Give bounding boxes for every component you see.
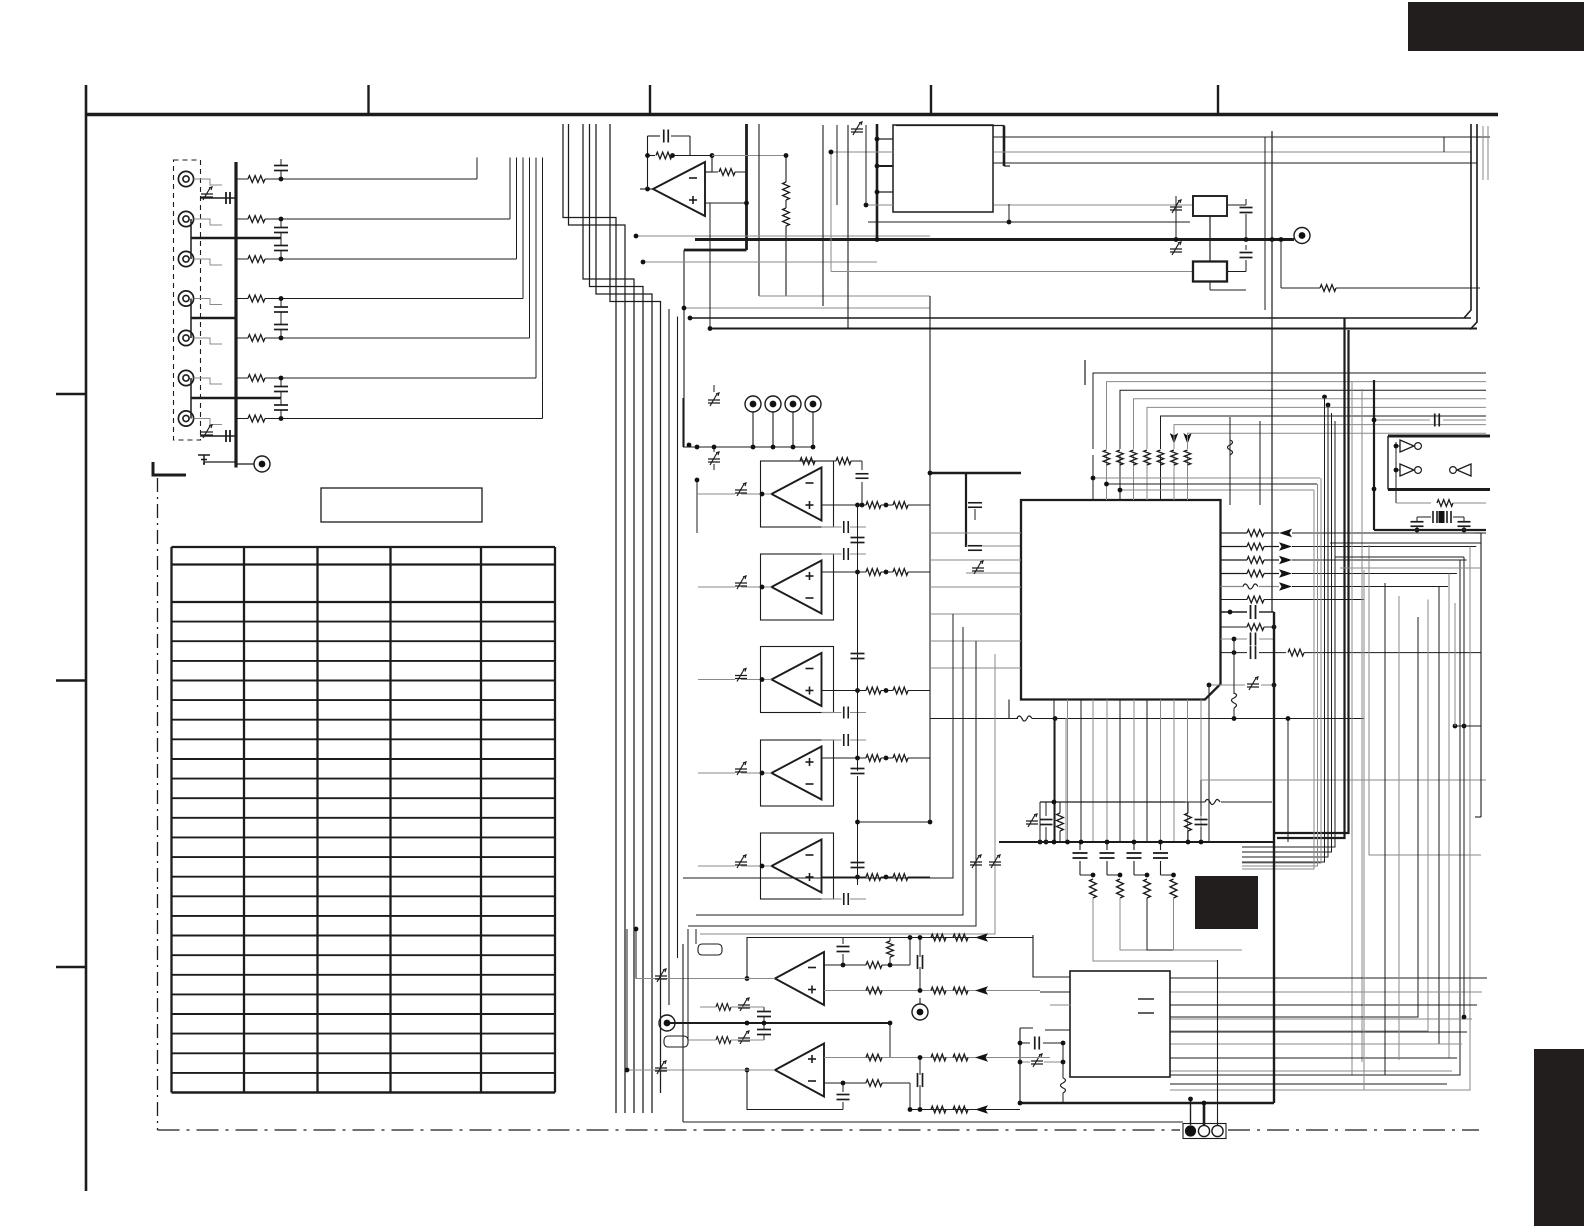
resistor R99 (843, 1082, 866, 1084)
IC U10 DSP (1021, 500, 1221, 700)
resistor R56b (1288, 649, 1304, 656)
wire bus right of U1 (758, 124, 760, 296)
wire right bus verticals (1242, 397, 1325, 862)
label tag 2 (664, 1036, 688, 1047)
wire U5 input (741, 772, 772, 774)
resistor R95 (931, 987, 946, 994)
resistor R50 (1221, 532, 1248, 534)
RCA jack J7 (178, 411, 193, 426)
test point TP6 (805, 396, 821, 412)
resistor R63 (1117, 879, 1124, 898)
wire thick analog (667, 1022, 890, 1024)
ferrite FB18 (989, 862, 1001, 865)
capacitor C26 (1227, 271, 1246, 273)
capacitor C12 (274, 227, 288, 229)
inverter U11c (1457, 464, 1471, 476)
arrow R5 (1279, 582, 1292, 590)
arrow R3 (1279, 569, 1292, 577)
resistor R34a (866, 874, 881, 881)
tick top 1 (367, 85, 369, 114)
op-amp U4 (772, 653, 822, 706)
wire feedback top (712, 155, 786, 157)
wire U1 inverting (705, 171, 712, 173)
ground (198, 455, 210, 464)
resistor R90 (843, 964, 866, 966)
op-amp U3 box (761, 554, 834, 620)
resistor R21 feedback (648, 155, 656, 157)
resistor R96 (953, 987, 968, 994)
wire DSP top staircase (1093, 373, 1486, 449)
resistor R70 (1395, 476, 1397, 503)
wire PS1 bus thick (876, 124, 879, 240)
capacitor C93 (757, 1029, 771, 1031)
wire row 1 (265, 178, 477, 180)
tick top 2 (649, 85, 651, 114)
wire row 6 (265, 377, 536, 379)
wire main bottom bus (999, 841, 1274, 843)
wire thick xtal gnd (1374, 529, 1486, 531)
RCA jack J3 (178, 251, 193, 266)
wire relay join (1209, 216, 1211, 262)
IC U12 marks (1138, 998, 1154, 1000)
resistor R93 (931, 934, 946, 941)
wire U11 supply (1373, 380, 1375, 530)
logo block (1195, 876, 1258, 929)
wire to DSP thick (930, 472, 1021, 474)
op-amp U4 box (761, 647, 834, 713)
op-amp U5 (772, 747, 822, 800)
wire PS1 top (896, 125, 1004, 127)
ferrite FB4 (1170, 249, 1182, 252)
wire dsp top join (1093, 477, 1320, 479)
capacitor C71 (1411, 521, 1424, 523)
capacitor C90 (837, 946, 850, 948)
wire CN1 pin3 (1217, 960, 1219, 1125)
arrow D1 (1170, 433, 1178, 444)
inductor L6 (1061, 1078, 1066, 1093)
resistor R100 (866, 1054, 882, 1061)
wire gray 1066 (1065, 718, 1067, 842)
capacitor C33 (843, 734, 845, 746)
wire U14 nin (824, 1057, 930, 1059)
wire opamp collect verticals (683, 614, 953, 878)
resistor R55 (1221, 599, 1248, 601)
ferrite FB16 (738, 1038, 750, 1041)
wire tp feed (682, 398, 684, 447)
resistor R12 (236, 218, 248, 220)
arrow L6 (975, 1053, 988, 1061)
resistor R26 (1281, 287, 1320, 289)
tick top 4 (1217, 85, 1219, 114)
wire thick main supply (695, 238, 1294, 241)
wire misc mid (965, 473, 967, 547)
wire U13 nin (824, 990, 930, 992)
IC U12 box (1070, 971, 1170, 1077)
wire right gray long pair (1351, 381, 1353, 1075)
capacitor C72 (1458, 521, 1471, 523)
connector shield dashed box (174, 160, 201, 440)
wire tp7 (919, 998, 921, 1004)
ferrite FB15 (738, 1005, 750, 1008)
wire pair tie 1 (191, 237, 281, 239)
wire row 2 (265, 218, 510, 220)
resistor R34b (893, 874, 908, 881)
wire inductor stub (1062, 1043, 1064, 1078)
arrow L7 (975, 1105, 988, 1113)
test point TP5 (785, 396, 801, 412)
wire U4 input (741, 679, 772, 681)
wire chassis corner (153, 462, 186, 475)
resistor R30a (866, 502, 881, 509)
capacitor C61 (1195, 819, 1208, 821)
capacitor C31 (843, 548, 845, 560)
wire op-amp out bus (929, 296, 931, 822)
wire bus from inputs (563, 124, 616, 1113)
wire 1209 down (1208, 685, 1210, 842)
resistor R65 (1170, 879, 1177, 898)
wire PS1 pins (877, 138, 893, 140)
resistor R31b (893, 569, 908, 576)
capacitor C11 (274, 165, 288, 167)
wire right bundle mid gray (1242, 490, 1314, 869)
arrow L5 (975, 986, 988, 994)
inductor L1 (1229, 417, 1231, 505)
wire 1260 (1259, 421, 1261, 505)
wire jack J4 stub (194, 299, 222, 305)
ferrite FB6 (708, 459, 720, 462)
op-amp U1 (653, 162, 705, 216)
RCA jack J1 (178, 171, 193, 186)
wire jack J3 stub (194, 259, 222, 265)
op-amp U6 box (761, 833, 834, 899)
wire DSP top pins (1092, 455, 1094, 500)
wire bus bottom (235, 464, 237, 468)
test point TP4 (765, 396, 781, 412)
resistor R14 (236, 298, 248, 300)
wire bottom net upper (1040, 801, 1185, 803)
wire row1057 (930, 1057, 1050, 1059)
capacitor C94 (837, 1094, 850, 1096)
wire net 152 (828, 151, 893, 153)
wire right vertical 1369 (1369, 545, 1481, 855)
resistor R104 (953, 1106, 968, 1113)
resistor R102 (953, 1054, 968, 1061)
title block top-right (1408, 2, 1584, 51)
wire row 4 (265, 298, 523, 300)
op-amp U2 box (761, 461, 834, 527)
resistor R33a (866, 755, 881, 762)
label tag 1 (698, 944, 722, 955)
arrow R1 (1279, 542, 1292, 550)
resistor R56 (1221, 626, 1248, 628)
wire U1 out thick (745, 124, 748, 250)
wire right verticals (1280, 240, 1282, 289)
wire DSP left pins (1002, 532, 1021, 534)
note box (321, 488, 482, 522)
wire verticals left of PS1 (822, 125, 824, 306)
resistor R51 (1221, 546, 1248, 548)
resistor R30b (893, 502, 908, 509)
ferrite FB21 (851, 129, 863, 132)
resistor R11 (236, 178, 248, 180)
resistor R22 (712, 171, 718, 173)
resistor R92 (866, 987, 882, 994)
wire net 205 (866, 204, 893, 206)
ferrite FB9 (735, 676, 747, 679)
capacitor C30 (843, 521, 845, 533)
inverter U11b (1400, 464, 1414, 476)
resistor R62 (1090, 879, 1097, 898)
wire row 543 (1330, 542, 1481, 544)
wire gray right edge (1482, 126, 1484, 180)
arrow L3 (1279, 529, 1292, 537)
capacitor C95 (917, 1073, 919, 1087)
wire net box (1039, 802, 1041, 842)
resistor R17 (236, 418, 248, 420)
tick left 3 (56, 966, 86, 968)
resistor R52 (1221, 559, 1248, 561)
RCA jack J4 (178, 291, 193, 306)
wire gray joins (636, 235, 930, 237)
capacitor C15 (274, 324, 288, 326)
wire CN1 pin1 (1190, 1099, 1192, 1125)
op-amp U2 (772, 468, 822, 521)
wire jack J6 stub (194, 378, 222, 384)
ferrite FB17 (970, 862, 982, 865)
resistor R94 (953, 934, 968, 941)
inverter U11a (1400, 440, 1414, 452)
bus vertical audio ground (234, 162, 237, 468)
wire fb net (909, 938, 911, 966)
resistor R91 (887, 941, 894, 957)
ferrite FB3 (1170, 207, 1182, 210)
wire row 1464 (1463, 557, 1465, 1017)
ferrite FB11 (735, 862, 747, 865)
test point TP7 (912, 1004, 928, 1020)
parts table (170, 547, 172, 1093)
capacitor C25 (1227, 204, 1246, 206)
ferrite FB10 (735, 769, 747, 772)
wire 890 down (889, 1023, 891, 1058)
wire 1288 down (1287, 719, 1289, 843)
RCA jack J6 (178, 370, 193, 385)
wire U1 tip (640, 188, 653, 190)
tick left 2 (56, 679, 86, 681)
capacitor C32 (843, 707, 845, 719)
ferrite FB14 (1031, 1061, 1043, 1064)
ferrite FB5 (708, 400, 720, 403)
wire thick right vertical pair (1277, 319, 1345, 839)
resistor R64 (1144, 879, 1151, 898)
wire jack J7 stub (194, 419, 222, 425)
test point TP1 (254, 456, 270, 472)
RCA jack J2 (178, 211, 193, 226)
wire jack J1 stub (194, 179, 222, 185)
resistor R32b (893, 687, 908, 694)
capacitor C52 (1250, 646, 1252, 659)
border top (86, 113, 1498, 117)
capacitor C16 (274, 386, 288, 388)
wire row 726 (1455, 725, 1481, 727)
wire U1 noninverting (705, 202, 747, 204)
regulator module PS1 (893, 125, 993, 212)
arrow D2 (1183, 433, 1191, 444)
resistor R29b (836, 458, 851, 465)
side block bottom-right (1534, 1049, 1584, 1226)
wire jack J2 stub (194, 219, 222, 225)
ferrite FB8 (735, 583, 747, 586)
wire bottom row bundle (1170, 977, 1487, 979)
op-amp U14 (775, 1044, 824, 1097)
wire trailing stubs (683, 445, 685, 447)
capacitor C50 (1221, 611, 1248, 613)
capacitor C60 (1040, 819, 1053, 821)
wire CN1 pin2 (1203, 1103, 1206, 1125)
capacitor C65 (1153, 852, 1168, 854)
resistor R101 (931, 1054, 946, 1061)
wire U12 left net (1033, 935, 1071, 977)
resistor R16 (236, 377, 248, 379)
resistor R15 (236, 337, 248, 339)
capacitor C21 feedback (647, 136, 649, 189)
wire DSP bottom pins (1053, 700, 1055, 843)
ferrite bead FB1 (201, 194, 213, 197)
test point TP8 (659, 1015, 675, 1031)
wire stub (1084, 360, 1086, 385)
relay RY1 (1193, 196, 1227, 216)
wire row 5 (265, 337, 530, 339)
op-amp U6 (772, 840, 822, 893)
capacitor C91 (917, 955, 919, 969)
op-amp U5 box (761, 740, 834, 806)
wire U13 loop (747, 938, 843, 979)
wire tp row feed2 (696, 480, 698, 533)
inductor L5 (1205, 800, 1220, 805)
resistor pullup row (1103, 450, 1110, 465)
capacitor C29 (861, 461, 863, 470)
resistor R60 (1057, 813, 1064, 831)
wire net 222 (868, 221, 1009, 223)
IC U11 buffer box (1388, 435, 1490, 438)
capacitor C63 (1100, 852, 1115, 854)
op-amp U13 (775, 952, 824, 1005)
RCA jack J5 (178, 330, 193, 345)
inductor L4 (930, 718, 1018, 720)
capacitor network mid (857, 505, 859, 771)
crystal X1 (1432, 511, 1434, 523)
relay RY2 (1193, 262, 1227, 282)
resistor R103 (931, 1106, 946, 1113)
border left (85, 85, 88, 1191)
wire bus bottom ends (616, 1112, 698, 1114)
capacitor C13 (274, 245, 288, 247)
arrow R2 (1279, 556, 1292, 564)
resistor R53 (1221, 573, 1248, 575)
wire U2 input (741, 493, 772, 495)
resistor R31a (866, 569, 881, 576)
arrow L4 (975, 933, 988, 941)
shield boundary dash-dot vertical (157, 478, 159, 1130)
capacitor C41 (968, 545, 982, 547)
wire row1109 (910, 1109, 1020, 1111)
inductor L2 (1221, 586, 1244, 588)
inductor L3 (1233, 639, 1235, 694)
resistor R29a (800, 458, 815, 465)
test point TP3 (745, 396, 761, 412)
wire U14 inv (824, 1082, 843, 1084)
capacitor C62 (1073, 852, 1088, 854)
wire row 7 (265, 418, 543, 420)
capacitor C64 (1127, 852, 1142, 854)
wire right col lower thick (1271, 131, 1273, 612)
resistor R23 R24 stack (785, 156, 787, 183)
shield boundary dash-dot bottom (158, 1129, 1480, 1131)
test point TP2 (1294, 228, 1310, 244)
wire pair tie 3 (191, 397, 281, 399)
resistor R13 (236, 258, 248, 260)
resistor R61 (1185, 813, 1192, 831)
capacitor C40 (968, 502, 982, 504)
capacitor C92 (757, 1011, 771, 1013)
wire row 568 (1340, 567, 1481, 569)
wire jack J5 stub (194, 338, 222, 344)
wire U13 inv (824, 964, 843, 966)
wire bus to right edge (1443, 137, 1445, 152)
wire pair tie 2 (191, 317, 236, 319)
resistor R32a (866, 687, 881, 694)
wire row 3 (265, 258, 517, 260)
capacitor C70 (1374, 419, 1430, 421)
tick top 3 (930, 85, 932, 114)
wire row990 (930, 990, 1040, 992)
capacitor C17 (274, 404, 288, 406)
wire U12 left pins2 (1040, 991, 1071, 993)
wire bus extra (668, 309, 670, 1005)
wire U6 input (741, 865, 772, 867)
tick left 1 (56, 393, 86, 395)
capacitor C80 (1020, 1042, 1030, 1044)
resistor R97 (716, 1004, 731, 1011)
wire row 718 (1049, 718, 1364, 720)
capacitor C14 (274, 306, 288, 308)
ferrite FB13 (1247, 684, 1259, 687)
resistor R33b (893, 755, 908, 762)
wire left col bottom (635, 929, 637, 979)
capacitor C34 (843, 893, 845, 905)
wire thick bottom gnd (1020, 1102, 1274, 1104)
ferrite bead FB2 (201, 432, 213, 435)
ferrite FB12 (972, 568, 984, 571)
wire net 163 (994, 162, 1478, 164)
trimmer cluster left (1026, 821, 1038, 824)
wire bottom long (683, 1121, 1183, 1123)
ferrite FB7 (735, 490, 747, 493)
resistor R98 (716, 1037, 731, 1044)
wire U14 loop (747, 1070, 843, 1110)
capacitor C51 (1221, 638, 1248, 640)
wire mesh extra verticals (1363, 570, 1365, 1090)
wire U11 left pins (1396, 445, 1400, 447)
wire nested route bundle (1480, 533, 1482, 817)
wire net 271 (831, 271, 1193, 273)
wire U3 input (741, 586, 772, 588)
connector CN1 (1183, 1124, 1226, 1139)
ferrite FB19 (655, 976, 667, 979)
wire right of PS1 (994, 136, 1491, 138)
ferrite FB20 (655, 1068, 667, 1071)
op-amp U3 (772, 561, 822, 614)
